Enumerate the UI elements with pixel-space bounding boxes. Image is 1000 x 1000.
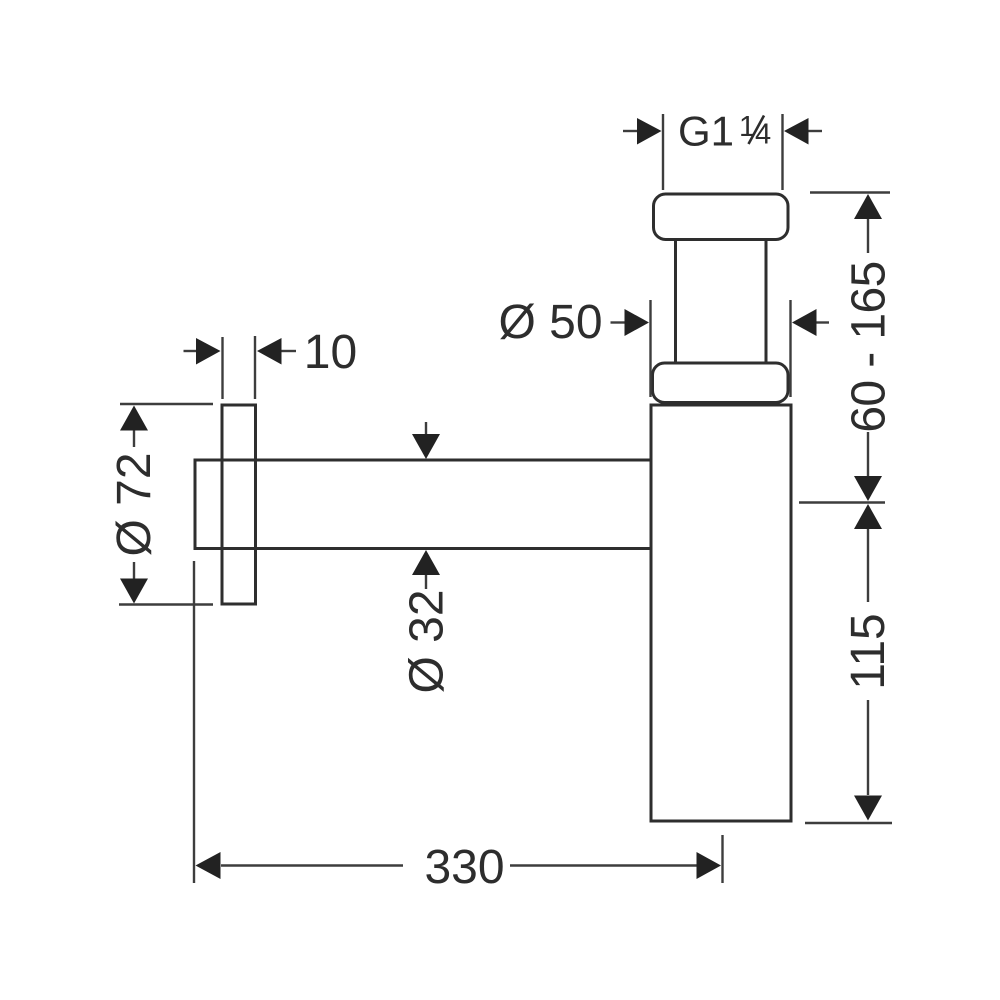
svg-text:10: 10: [304, 326, 357, 379]
svg-text:4: 4: [755, 119, 771, 151]
svg-text:115: 115: [842, 613, 895, 690]
dimension G1 1/4: [623, 114, 822, 190]
wall pipe: [195, 460, 651, 549]
trap body: [651, 405, 791, 821]
dimension 115: [805, 529, 892, 823]
dimension 330: [194, 561, 723, 883]
svg-text:Ø 50: Ø 50: [498, 296, 602, 349]
body flange: [653, 363, 789, 403]
dimension D50: [611, 300, 830, 397]
dimension D72: [119, 404, 213, 605]
svg-text:Ø 72: Ø 72: [108, 452, 161, 556]
svg-text:Ø 32: Ø 32: [401, 589, 454, 693]
svg-text:60 - 165: 60 - 165: [843, 261, 896, 432]
dimension D32: [425, 422, 427, 589]
trap inlet nut: [654, 194, 789, 240]
svg-text:G1: G1: [678, 108, 734, 155]
svg-text:330: 330: [424, 841, 504, 894]
dimension 10: [184, 336, 297, 399]
wall flange: [222, 405, 256, 604]
riser pipe: [676, 240, 767, 364]
dimension 60-165: [799, 193, 890, 503]
